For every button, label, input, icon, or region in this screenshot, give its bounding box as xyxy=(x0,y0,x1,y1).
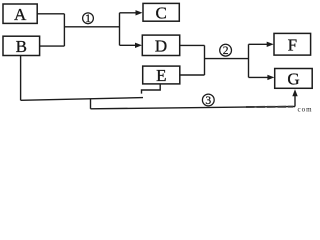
svg-text:3: 3 xyxy=(205,95,211,107)
svg-text:F: F xyxy=(288,36,297,55)
svg-text:B: B xyxy=(16,37,27,56)
box F xyxy=(274,33,311,55)
svg-text:C: C xyxy=(156,4,167,23)
wire arrow to G left xyxy=(249,76,269,78)
split bar 2 xyxy=(248,44,250,77)
merge bar 2 xyxy=(204,45,206,75)
wire E bracket down-left xyxy=(142,84,161,94)
wire arrow to C xyxy=(120,12,137,14)
wire B to merge bar 1 xyxy=(40,45,65,47)
wire B drop down xyxy=(20,56,22,101)
merge bar 1 xyxy=(63,14,65,46)
box G xyxy=(275,69,313,89)
svg-text:D: D xyxy=(155,37,167,56)
wire arrow to F xyxy=(249,43,268,45)
watermark dashes on rail xyxy=(246,106,293,108)
wire arrow up into G bottom xyxy=(294,96,296,107)
box C xyxy=(143,3,179,21)
svg-text:G: G xyxy=(287,70,299,89)
svg-text:A: A xyxy=(14,5,27,24)
arrowhead up into G bottom xyxy=(292,89,297,96)
box D xyxy=(142,35,179,55)
arrowhead into D xyxy=(135,43,142,48)
arrowhead into G left xyxy=(267,75,274,80)
wire bottom long rail 3 xyxy=(91,107,296,109)
circle 3 xyxy=(202,94,214,106)
svg-text:com: com xyxy=(298,106,313,114)
arrowhead into F xyxy=(267,42,274,47)
svg-text:E: E xyxy=(156,66,166,85)
wire arrow to D xyxy=(120,44,137,46)
svg-text:2: 2 xyxy=(223,45,229,57)
wire step down xyxy=(90,99,92,109)
circle 1 xyxy=(83,13,94,24)
box A xyxy=(3,4,37,23)
wire D to merge bar 2 xyxy=(180,44,205,46)
circle 2 xyxy=(220,44,232,56)
wire bottom upper rail xyxy=(21,98,143,101)
arrowhead into C xyxy=(136,10,143,15)
wire E to merge bar 2 xyxy=(180,74,205,76)
wire 2 horizontal xyxy=(205,58,249,60)
svg-text:1: 1 xyxy=(85,13,91,25)
box B xyxy=(3,36,40,55)
wire 1 horizontal xyxy=(64,26,119,28)
split bar 1 xyxy=(119,13,121,46)
wire A to merge bar 1 xyxy=(37,13,64,15)
box E xyxy=(143,66,180,84)
